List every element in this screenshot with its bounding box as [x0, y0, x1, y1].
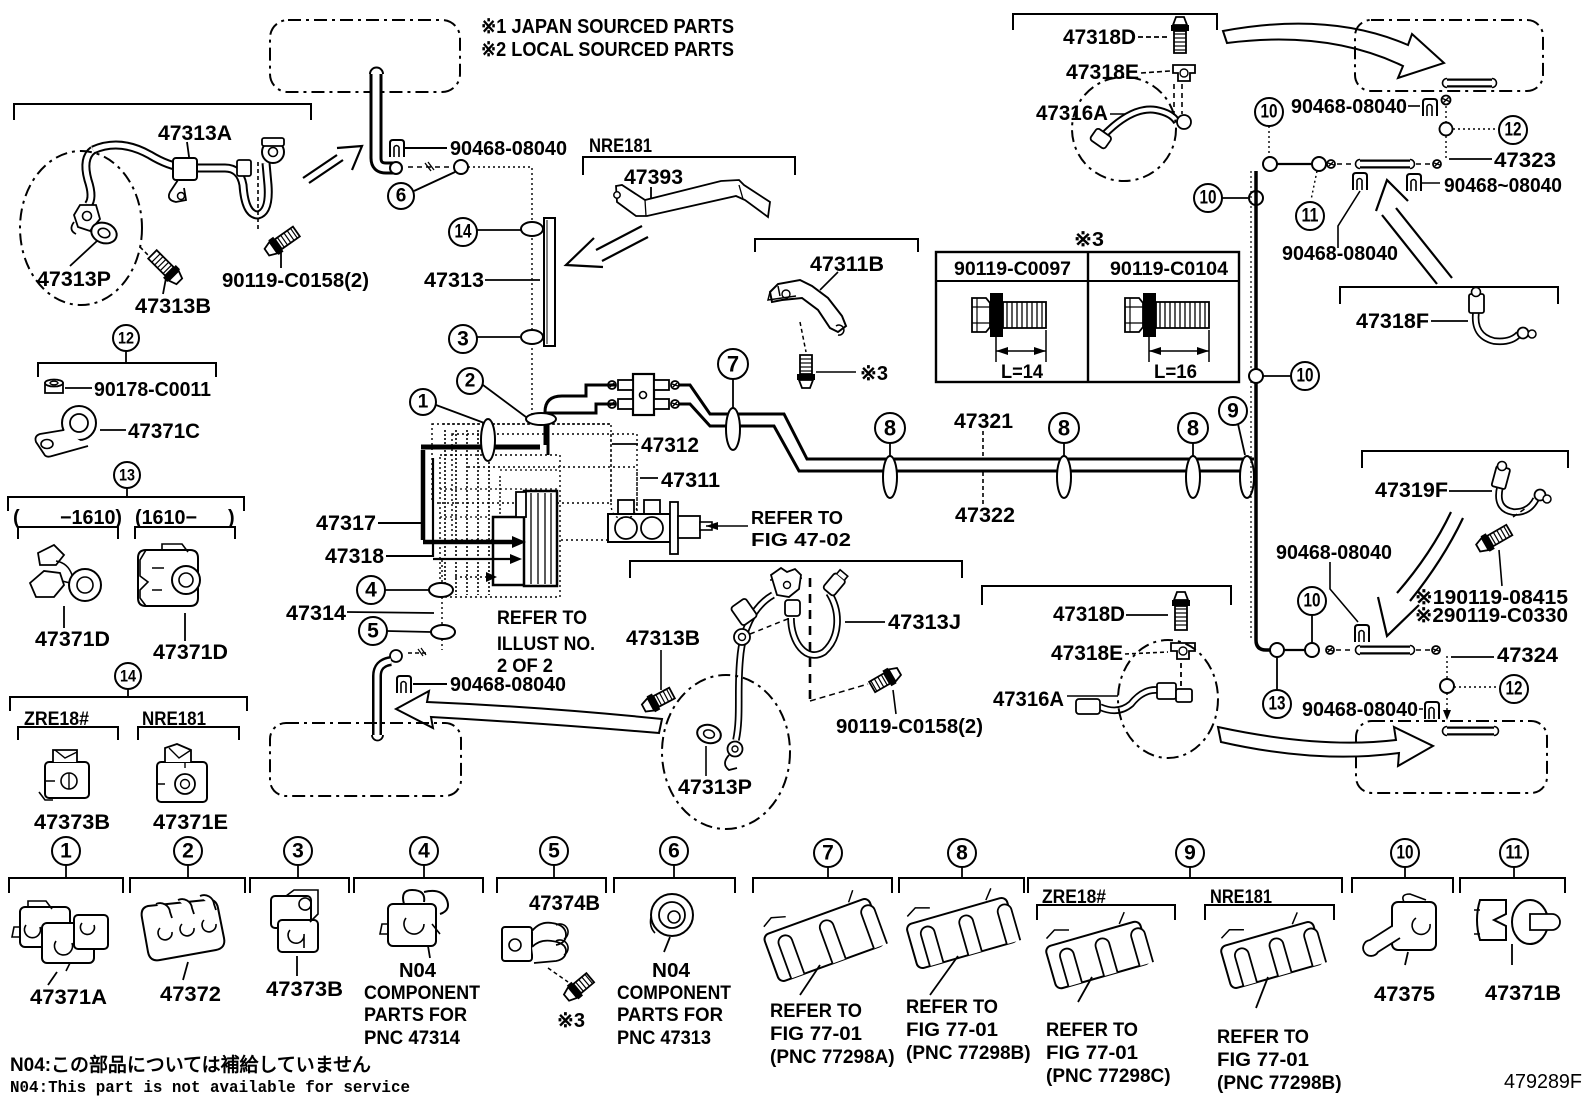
svg-text:4: 4 — [418, 840, 430, 863]
svg-text:47313B: 47313B — [135, 295, 211, 318]
svg-text:FIG 47-02: FIG 47-02 — [751, 530, 851, 550]
svg-text:2: 2 — [465, 371, 476, 392]
svg-text:10: 10 — [1200, 188, 1217, 209]
svg-text:6: 6 — [396, 186, 407, 207]
svg-text:PARTS FOR: PARTS FOR — [364, 1005, 467, 1026]
svg-text:10: 10 — [1304, 591, 1321, 612]
svg-text:47371C: 47371C — [128, 420, 200, 443]
svg-text:47313: 47313 — [424, 269, 484, 292]
svg-text:47312: 47312 — [641, 434, 699, 457]
svg-text:14: 14 — [120, 667, 136, 686]
svg-text:90119-C0104: 90119-C0104 — [1110, 259, 1228, 280]
svg-text:FIG 77-01: FIG 77-01 — [1217, 1050, 1309, 1071]
svg-text:−1610): −1610) — [60, 507, 122, 529]
svg-text:3: 3 — [457, 328, 469, 351]
svg-text:13: 13 — [119, 466, 135, 485]
svg-text:9: 9 — [1227, 400, 1239, 423]
svg-text:47393: 47393 — [624, 166, 683, 189]
svg-text:REFER TO: REFER TO — [770, 1001, 862, 1022]
svg-text:2: 2 — [182, 840, 194, 863]
svg-text:47372: 47372 — [160, 983, 221, 1006]
svg-text:FIG 77-01: FIG 77-01 — [906, 1020, 998, 1041]
svg-text:90178-C0011: 90178-C0011 — [94, 379, 211, 401]
svg-text:47318D: 47318D — [1053, 603, 1125, 626]
svg-text:(: ( — [13, 507, 20, 529]
svg-text:12: 12 — [118, 329, 134, 348]
svg-text:47313J: 47313J — [888, 611, 961, 634]
svg-text:47317: 47317 — [316, 512, 376, 535]
svg-text:※3: ※3 — [1074, 229, 1104, 251]
svg-text:8: 8 — [1058, 416, 1070, 441]
svg-text:10: 10 — [1397, 843, 1414, 864]
svg-text:12: 12 — [1505, 120, 1522, 141]
svg-text:N04:この部品については補給していません: N04:この部品については補給していません — [10, 1053, 371, 1076]
svg-text:90468-08040: 90468-08040 — [450, 138, 567, 160]
svg-text:4: 4 — [365, 579, 377, 602]
svg-text:COMPONENT: COMPONENT — [364, 983, 480, 1004]
svg-text:REFER TO: REFER TO — [906, 997, 998, 1018]
svg-text:ILLUST NO.: ILLUST NO. — [497, 634, 595, 655]
svg-text:47371A: 47371A — [30, 986, 107, 1009]
svg-text:47371B: 47371B — [1485, 982, 1561, 1005]
svg-text:FIG 77-01: FIG 77-01 — [1046, 1043, 1138, 1064]
svg-text:47318F: 47318F — [1356, 310, 1429, 333]
svg-text:N04: N04 — [652, 960, 691, 982]
svg-text:47373B: 47373B — [266, 978, 343, 1001]
svg-text:FIG 77-01: FIG 77-01 — [770, 1024, 862, 1045]
svg-text:REFER TO: REFER TO — [497, 608, 587, 629]
svg-text:(PNC 77298B): (PNC 77298B) — [1217, 1073, 1342, 1094]
svg-text:※290119-C0330: ※290119-C0330 — [1415, 605, 1568, 627]
svg-text:13: 13 — [1269, 694, 1286, 715]
svg-text:90119-C0097: 90119-C0097 — [954, 259, 1071, 280]
svg-text:47323: 47323 — [1494, 149, 1556, 172]
svg-text:47371E: 47371E — [153, 811, 228, 834]
svg-text:): ) — [228, 507, 235, 529]
svg-text:90468-08040: 90468-08040 — [450, 674, 566, 696]
svg-text:11: 11 — [1506, 843, 1523, 864]
svg-text:47321: 47321 — [954, 410, 1013, 433]
svg-text:47322: 47322 — [955, 504, 1015, 527]
svg-text:PARTS FOR: PARTS FOR — [617, 1005, 723, 1026]
svg-text:3: 3 — [292, 840, 304, 863]
svg-text:(PNC 77298A): (PNC 77298A) — [770, 1047, 895, 1068]
svg-text:※3: ※3 — [557, 1010, 585, 1032]
svg-text:(PNC 77298C): (PNC 77298C) — [1046, 1066, 1171, 1087]
svg-text:47313P: 47313P — [37, 268, 111, 291]
svg-text:47313P: 47313P — [678, 776, 752, 799]
svg-text:10: 10 — [1297, 366, 1314, 387]
svg-text:7: 7 — [822, 842, 834, 865]
svg-text:47375: 47375 — [1374, 983, 1435, 1006]
svg-text:NRE181: NRE181 — [589, 136, 652, 157]
svg-text:47316A: 47316A — [1036, 102, 1108, 125]
svg-text:N04:This part is not available: N04:This part is not available for servi… — [10, 1079, 410, 1098]
svg-text:(1610−: (1610− — [135, 507, 197, 529]
svg-text:47374B: 47374B — [529, 892, 600, 915]
svg-text:47318E: 47318E — [1066, 61, 1139, 84]
svg-text:47313B: 47313B — [626, 627, 700, 650]
svg-text:6: 6 — [668, 840, 680, 863]
svg-text:47371D: 47371D — [153, 641, 228, 664]
svg-text:90119-C0158(2): 90119-C0158(2) — [222, 270, 369, 292]
svg-text:11: 11 — [1302, 206, 1319, 227]
svg-text:47311: 47311 — [661, 469, 720, 492]
svg-text:47373B: 47373B — [34, 811, 110, 834]
svg-text:14: 14 — [455, 222, 472, 243]
svg-text:12: 12 — [1506, 679, 1523, 700]
svg-text:90468~08040: 90468~08040 — [1444, 175, 1562, 197]
svg-text:REFER TO: REFER TO — [1046, 1020, 1138, 1041]
svg-text:N04: N04 — [399, 960, 437, 982]
svg-text:PNC 47314: PNC 47314 — [364, 1028, 460, 1049]
svg-text:90468-08040: 90468-08040 — [1291, 96, 1407, 118]
svg-text:47324: 47324 — [1497, 644, 1558, 667]
svg-text:7: 7 — [727, 352, 739, 377]
svg-text:90468-08040: 90468-08040 — [1302, 699, 1418, 721]
svg-text:1: 1 — [418, 392, 429, 413]
svg-text:5: 5 — [367, 620, 379, 643]
svg-text:5: 5 — [548, 840, 560, 863]
svg-text:REFER TO: REFER TO — [1217, 1027, 1309, 1048]
svg-text:47319F: 47319F — [1375, 479, 1448, 502]
svg-text:8: 8 — [956, 842, 968, 865]
svg-text:47316A: 47316A — [993, 688, 1064, 711]
svg-text:COMPONENT: COMPONENT — [617, 983, 731, 1004]
svg-text:L=16: L=16 — [1154, 362, 1197, 383]
svg-text:47318D: 47318D — [1063, 26, 1136, 49]
svg-text:47318E: 47318E — [1051, 642, 1123, 665]
svg-text:L=14: L=14 — [1001, 362, 1043, 383]
svg-text:8: 8 — [884, 416, 896, 441]
svg-text:90468-08040: 90468-08040 — [1276, 542, 1392, 564]
svg-text:REFER TO: REFER TO — [751, 508, 843, 528]
svg-text:90119-C0158(2): 90119-C0158(2) — [836, 716, 983, 738]
svg-text:9: 9 — [1184, 842, 1196, 865]
svg-text:47371D: 47371D — [35, 628, 110, 651]
svg-text:※3: ※3 — [860, 363, 888, 385]
svg-text:8: 8 — [1187, 416, 1199, 441]
svg-text:※1 JAPAN SOURCED PARTS: ※1 JAPAN SOURCED PARTS — [481, 16, 734, 38]
svg-text:※2 LOCAL SOURCED PARTS: ※2 LOCAL SOURCED PARTS — [481, 39, 734, 61]
svg-text:47314: 47314 — [286, 602, 346, 625]
svg-text:47311B: 47311B — [810, 253, 884, 276]
svg-text:479289F: 479289F — [1504, 1071, 1582, 1093]
svg-text:47318: 47318 — [325, 545, 384, 568]
svg-text:2 OF 2: 2 OF 2 — [497, 656, 553, 677]
svg-text:90468-08040: 90468-08040 — [1282, 243, 1398, 265]
svg-text:47313A: 47313A — [158, 122, 232, 145]
svg-text:(PNC 77298B): (PNC 77298B) — [906, 1043, 1031, 1064]
svg-text:10: 10 — [1261, 102, 1278, 123]
svg-text:PNC 47313: PNC 47313 — [617, 1028, 711, 1049]
svg-text:1: 1 — [60, 840, 72, 863]
